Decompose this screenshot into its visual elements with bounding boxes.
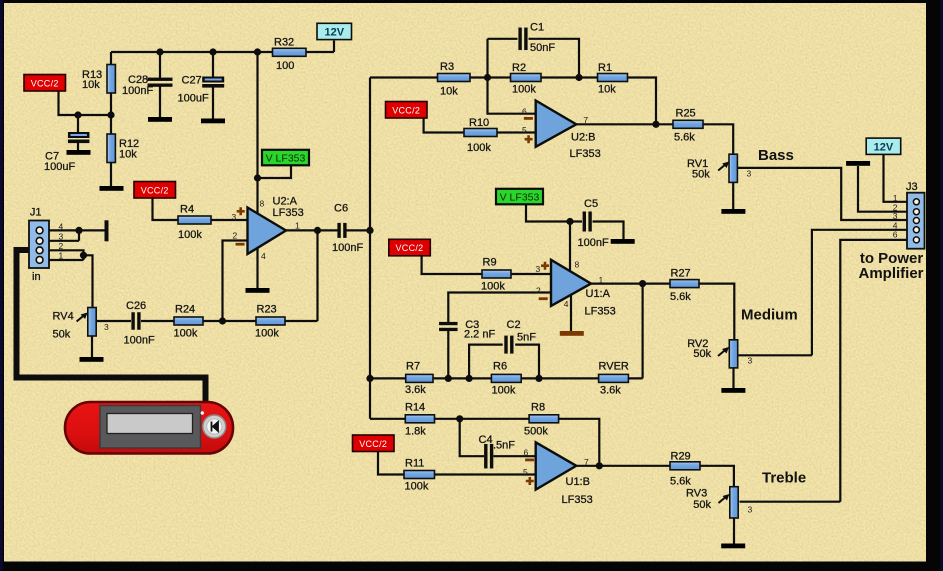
svg-text:R7: R7: [406, 361, 420, 373]
svg-text:in: in: [32, 271, 41, 283]
svg-text:LF353: LF353: [273, 207, 304, 219]
svg-text:3: 3: [104, 322, 109, 332]
svg-text:RV3: RV3: [686, 488, 707, 500]
svg-text:R4: R4: [180, 204, 194, 216]
svg-text:6: 6: [893, 230, 898, 240]
svg-text:C4: C4: [479, 434, 493, 446]
svg-text:4: 4: [261, 251, 266, 261]
svg-text:4: 4: [59, 222, 64, 232]
svg-text:C5: C5: [584, 198, 598, 210]
svg-text:LF353: LF353: [570, 148, 601, 160]
svg-text:R25: R25: [676, 108, 696, 120]
svg-text:VCC/2: VCC/2: [31, 78, 59, 88]
svg-text:100nF: 100nF: [122, 85, 153, 97]
svg-text:C2: C2: [507, 319, 521, 331]
svg-text:100k: 100k: [467, 142, 491, 154]
svg-text:VCC/2: VCC/2: [141, 185, 169, 195]
svg-text:R10: R10: [469, 117, 489, 129]
svg-text:10k: 10k: [82, 79, 100, 91]
svg-text:5.6k: 5.6k: [670, 476, 691, 488]
svg-text:U1:A: U1:A: [586, 288, 611, 300]
svg-text:3: 3: [747, 169, 752, 179]
svg-text:100uF: 100uF: [178, 93, 209, 105]
svg-text:12V: 12V: [324, 27, 344, 39]
svg-text:LF353: LF353: [562, 494, 593, 506]
svg-text:Treble: Treble: [762, 470, 806, 487]
svg-text:Amplifier: Amplifier: [858, 265, 923, 282]
svg-text:R24: R24: [175, 304, 195, 316]
svg-text:100k: 100k: [174, 328, 198, 340]
svg-text:100k: 100k: [178, 229, 202, 241]
svg-text:RVER: RVER: [599, 361, 629, 373]
svg-text:8: 8: [260, 199, 265, 209]
svg-text:R32: R32: [274, 37, 294, 49]
svg-text:10k: 10k: [598, 84, 616, 96]
svg-text:2: 2: [233, 230, 238, 240]
svg-text:3.6k: 3.6k: [600, 385, 621, 397]
svg-text:J1: J1: [30, 207, 42, 219]
svg-text:2.2 nF: 2.2 nF: [464, 329, 495, 341]
svg-text:J3: J3: [906, 181, 918, 193]
svg-text:V LF353: V LF353: [266, 152, 306, 164]
svg-text:100k: 100k: [492, 385, 516, 397]
svg-text:R6: R6: [493, 361, 507, 373]
svg-text:Medium: Medium: [741, 307, 798, 324]
svg-text:1: 1: [295, 220, 300, 230]
svg-text:3: 3: [536, 264, 541, 274]
svg-text:6: 6: [524, 448, 529, 458]
svg-text:U2:A: U2:A: [273, 196, 298, 208]
svg-text:100nF: 100nF: [332, 242, 363, 254]
svg-text:100k: 100k: [255, 328, 279, 340]
svg-text:50k: 50k: [693, 499, 711, 511]
svg-text:R1: R1: [598, 62, 612, 74]
svg-text:Bass: Bass: [758, 147, 794, 164]
svg-text:R2: R2: [512, 62, 526, 74]
svg-text:C26: C26: [126, 300, 146, 312]
svg-text:U2:B: U2:B: [571, 132, 595, 144]
svg-text:100uF: 100uF: [44, 161, 75, 173]
svg-text:R29: R29: [671, 451, 691, 463]
svg-text:4: 4: [564, 299, 569, 309]
svg-text:R3: R3: [440, 61, 454, 73]
svg-text:100nF: 100nF: [578, 237, 609, 249]
svg-text:R27: R27: [671, 268, 691, 280]
svg-text:R14: R14: [405, 402, 425, 414]
svg-text:2: 2: [59, 241, 64, 251]
svg-text:5: 5: [522, 125, 527, 135]
svg-text:100: 100: [276, 60, 294, 72]
svg-text:VCC/2: VCC/2: [359, 439, 387, 449]
svg-text:6: 6: [522, 107, 527, 117]
svg-text:C6: C6: [334, 203, 348, 215]
svg-text:3: 3: [232, 212, 237, 222]
svg-text:5: 5: [523, 467, 528, 477]
svg-text:1: 1: [59, 251, 64, 261]
svg-text:8: 8: [575, 260, 580, 270]
svg-text:100k: 100k: [405, 481, 429, 493]
svg-text:50k: 50k: [693, 348, 711, 360]
svg-text:U1:B: U1:B: [566, 476, 590, 488]
svg-text:C1: C1: [530, 22, 544, 34]
svg-text:100nF: 100nF: [124, 335, 155, 347]
svg-text:3: 3: [748, 356, 753, 366]
svg-text:5.6k: 5.6k: [670, 291, 691, 303]
svg-text:LF353: LF353: [585, 306, 616, 318]
svg-text:C27: C27: [182, 75, 202, 87]
svg-text:V LF353: V LF353: [500, 191, 540, 203]
svg-text:VCC/2: VCC/2: [392, 105, 420, 115]
svg-text:7: 7: [583, 115, 588, 125]
svg-text:10k: 10k: [119, 149, 137, 161]
svg-text:1: 1: [599, 275, 604, 285]
svg-text:100k: 100k: [481, 281, 505, 293]
svg-text:50k: 50k: [53, 329, 71, 341]
svg-text:3: 3: [748, 505, 753, 515]
svg-text:RV4: RV4: [53, 311, 74, 323]
svg-text:100k: 100k: [512, 84, 536, 96]
svg-text:50nF: 50nF: [530, 42, 555, 54]
svg-text:3.6k: 3.6k: [405, 384, 426, 396]
svg-text:10k: 10k: [440, 86, 458, 98]
svg-text:VCC/2: VCC/2: [395, 243, 423, 253]
svg-text:5.6k: 5.6k: [674, 132, 695, 144]
svg-text:R11: R11: [405, 458, 424, 470]
svg-text:R8: R8: [531, 402, 545, 414]
svg-text:.5nF: .5nF: [493, 440, 515, 452]
svg-text:50k: 50k: [692, 169, 710, 181]
svg-text:3: 3: [893, 211, 898, 221]
svg-text:5nF: 5nF: [517, 332, 536, 344]
svg-text:2: 2: [536, 286, 541, 296]
svg-text:R9: R9: [483, 257, 497, 269]
svg-text:500k: 500k: [524, 426, 548, 438]
svg-text:7: 7: [584, 457, 589, 467]
svg-text:12V: 12V: [874, 141, 894, 153]
svg-text:R23: R23: [257, 304, 277, 316]
svg-text:1.8k: 1.8k: [405, 426, 426, 438]
